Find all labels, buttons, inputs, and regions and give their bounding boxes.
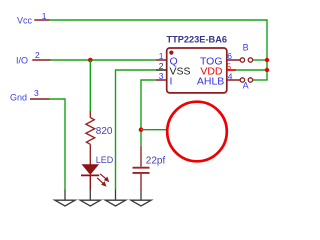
svg-text:2: 2 bbox=[159, 61, 164, 71]
IC body bbox=[167, 48, 227, 93]
svg-text:I/O: I/O bbox=[16, 55, 28, 65]
svg-text:820: 820 bbox=[96, 126, 113, 137]
wire B to Vcc rail bbox=[253, 59, 267, 61]
port Gnd pin stub bbox=[30, 98, 50, 100]
svg-text:Gnd: Gnd bbox=[10, 93, 27, 103]
svg-text:2: 2 bbox=[35, 50, 40, 60]
wire resistor branch down bbox=[89, 60, 91, 112]
pin 2 stub (VSS, black) bbox=[156, 69, 167, 71]
port I/O pin stub bbox=[32, 59, 50, 61]
svg-text:4: 4 bbox=[228, 71, 233, 81]
svg-text:Vcc: Vcc bbox=[17, 15, 33, 25]
junction Vcc rail row5 bbox=[265, 68, 269, 72]
wire I pin to cap bbox=[141, 80, 156, 146]
ground 3 (VSS) bbox=[105, 189, 125, 206]
svg-text:I: I bbox=[170, 75, 173, 87]
wire Gnd bbox=[50, 99, 66, 189]
jumper A circle 2 bbox=[248, 78, 252, 82]
LED D1 bbox=[81, 165, 108, 190]
svg-text:A: A bbox=[243, 80, 249, 90]
pin 1 stub bbox=[156, 59, 167, 61]
ground 2 (LED) bbox=[80, 189, 100, 206]
wire junction to touch pad bbox=[141, 129, 167, 131]
pin 3 stub bbox=[156, 79, 167, 81]
resistor R1 820 bbox=[86, 111, 95, 165]
jumper A circle 1 bbox=[240, 78, 244, 82]
touch pad circle bbox=[167, 102, 227, 162]
LED arrows bbox=[97, 174, 108, 186]
pin 5 stub (VDD, red) bbox=[228, 69, 236, 71]
port Vcc pin stub bbox=[34, 19, 49, 21]
svg-text:LED: LED bbox=[96, 155, 114, 165]
jumper B circle 1 bbox=[240, 58, 244, 62]
wire Vcc horizontal bbox=[50, 19, 267, 21]
svg-text:AHLB: AHLB bbox=[197, 75, 224, 87]
svg-text:3: 3 bbox=[34, 88, 39, 98]
capacitor C1 22pf bbox=[133, 146, 150, 190]
pin 4 stub bbox=[227, 79, 240, 81]
svg-text:6: 6 bbox=[227, 51, 232, 61]
wire Vcc vertical rail bbox=[266, 19, 268, 80]
svg-text:22pf: 22pf bbox=[146, 155, 166, 166]
jumper B circle 2 bbox=[248, 58, 252, 62]
svg-text:1: 1 bbox=[159, 51, 164, 61]
ground 1 bbox=[55, 189, 75, 206]
junction I/O-resistor bbox=[88, 58, 93, 63]
wire VSS to ground bbox=[116, 70, 156, 189]
wire A to rail bbox=[253, 79, 268, 81]
ground 4 (cap) bbox=[131, 189, 151, 206]
IC U1 TTP223E-BA6 bbox=[156, 34, 240, 93]
svg-text:TTP223E-BA6: TTP223E-BA6 bbox=[167, 34, 228, 44]
svg-text:B: B bbox=[243, 43, 249, 53]
pin 6 stub bbox=[227, 59, 240, 61]
junction I-cap-pad bbox=[139, 127, 144, 132]
junction Vcc rail row6 bbox=[265, 58, 269, 62]
svg-text:5: 5 bbox=[226, 61, 231, 71]
svg-text:3: 3 bbox=[159, 71, 164, 81]
pin1 marker dot bbox=[169, 51, 173, 55]
wire I/O to pin 1 bbox=[51, 59, 156, 61]
svg-text:VSS: VSS bbox=[170, 65, 191, 77]
wire VDD to Vcc rail bbox=[236, 69, 267, 71]
